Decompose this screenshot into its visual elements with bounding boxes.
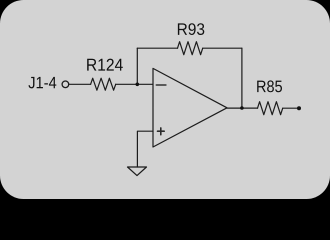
wire feedback top left [137,47,177,49]
op-amp minus sign [156,84,165,86]
wire noninverting input [137,131,153,167]
label R93 [178,23,204,35]
op-amp plus sign [158,128,165,135]
label R85 [257,80,282,92]
label J1-4 [28,77,56,89]
junction node at output [240,106,244,110]
wire feedback left vertical [136,48,138,84]
wire R124 to op-amp inverting input [116,83,153,85]
label R124 [87,59,123,71]
wire input to R124 [69,83,90,85]
wire op-amp output [227,107,258,109]
resistor R93 [178,42,203,55]
wire R85 to output terminal [283,107,299,109]
resistor R85 [258,102,283,115]
wire feedback right vertical [241,48,243,108]
terminal J1-4 circle [62,81,69,88]
resistor R124 [91,78,116,90]
ground symbol [128,167,147,176]
junction node at inverting input [136,83,140,87]
op-amp U1 triangle [153,68,227,147]
wire feedback top right [203,47,242,49]
output terminal dot [297,106,301,110]
